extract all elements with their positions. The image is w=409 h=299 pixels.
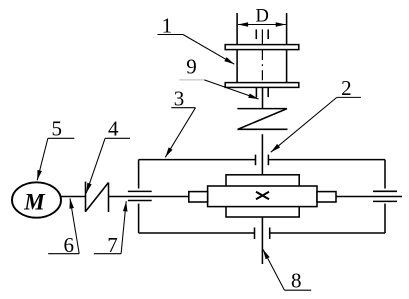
- pulley top flange (item 1): [225, 45, 299, 50]
- svg-text:9: 9: [186, 55, 197, 79]
- leaders: [37, 35, 361, 291]
- belt drive Z symbol (item 2): [237, 109, 287, 130]
- worm shaft journal left: [189, 192, 208, 202]
- label 3 leader: [165, 108, 195, 158]
- bearing right: [373, 191, 397, 201]
- svg-text:8: 8: [291, 269, 302, 293]
- svg-text:3: 3: [174, 87, 185, 111]
- label 8 leader: [263, 249, 311, 290]
- svg-text:M: M: [23, 190, 46, 215]
- wire: vertical shaft below wheel (item 8): [261, 217, 263, 264]
- wire: vertical shaft above housing: [261, 134, 263, 175]
- svg-text:1: 1: [162, 13, 173, 37]
- label 9 leader: [179, 80, 258, 99]
- bearing top (vertical shaft): [256, 155, 269, 166]
- pulley centerline dash-dot: [261, 29, 263, 82]
- worm cross mark: [256, 192, 269, 199]
- worm shaft journal right: [317, 192, 336, 202]
- label 1 leader: [158, 35, 235, 65]
- label 2 leader: [271, 97, 361, 152]
- svg-text:5: 5: [51, 117, 62, 141]
- wire: output shaft right: [336, 196, 402, 198]
- worm wheel: [226, 175, 299, 217]
- label 7 leader: [94, 201, 126, 254]
- pulley bottom flange: [225, 83, 299, 88]
- svg-text:2: 2: [341, 76, 352, 100]
- pulley rim side lines / dimension extension lines: [237, 13, 287, 83]
- svg-text:7: 7: [107, 233, 118, 257]
- dimension D arrows: [238, 24, 286, 26]
- svg-text:6: 6: [64, 233, 75, 257]
- bearing bottom (vertical shaft): [255, 228, 270, 240]
- bearing left (input): [128, 191, 152, 200]
- label 5 leader: [37, 138, 74, 180]
- wire: pulley shaft (item 9): [256, 87, 268, 109]
- wire: motor output shaft: [61, 196, 86, 198]
- wire: shaft coupling to worm: [109, 196, 189, 198]
- worm: [208, 186, 317, 207]
- label texts: [51, 13, 351, 292]
- svg-text:4: 4: [108, 117, 119, 141]
- motor M (electric motor ellipse): [12, 182, 61, 217]
- belt section ticks: [256, 29, 268, 39]
- coupling (item 4 symbol): [86, 182, 109, 213]
- svg-text:D: D: [256, 7, 269, 27]
- label 6 leader: [48, 198, 79, 253]
- label 4 leader: [86, 138, 130, 193]
- gearbox housing (item 3): [139, 160, 385, 233]
